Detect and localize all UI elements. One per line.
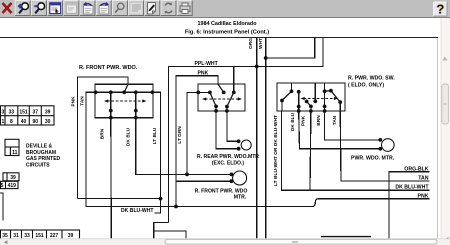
left page-edge clipped table borders <box>0 106 2 125</box>
wire PNK feed to SW1 lever <box>78 77 129 199</box>
junction PNK / LT BLU <box>78 198 161 200</box>
bottom scrollbar left arrow <box>4 240 7 244</box>
SW3 contact pair x298.7 <box>298 92 300 111</box>
wire PPL-WHT riser and branch <box>169 38 324 223</box>
clipped component edge bottom <box>321 236 371 238</box>
connector 5/419 box <box>0 181 18 189</box>
SW2 moving contact D1 <box>210 92 216 106</box>
switch SW1 R. FRONT PWR. WDO. box <box>95 84 153 117</box>
connector 11 box <box>5 139 19 156</box>
stub below staircase <box>153 231 155 239</box>
wire PNK riser to SW2 <box>176 76 218 207</box>
wire LT GRN feed to SW2 <box>187 92 210 174</box>
motor M1 R. REAR PWR. WDO. MTR. <box>237 139 251 150</box>
SW2 lever 1 <box>218 84 224 92</box>
wire LT BLU-WHT OR DK BLU-WHT from SW3 <box>282 101 430 191</box>
connector pin table bottom-left (35 31 33 151 227 39) <box>0 230 80 239</box>
wire TAN long run with jog to PNK lead <box>86 199 430 207</box>
SW1 contact column 2 <box>135 92 137 117</box>
junction PNK riser on TAN run <box>174 205 178 209</box>
wire PNK tee to R. FRONT motor lower <box>176 180 231 182</box>
toolbar zoom-out button <box>31 1 46 16</box>
toolbar notes button <box>145 1 160 16</box>
wire LT BLU from SW1 common <box>153 92 161 213</box>
wire DK BLU from SW1 to R. FRONT motor <box>136 118 232 175</box>
SW2 common dot A <box>208 91 212 95</box>
toolbar select-document button <box>48 1 63 16</box>
wire BRN from SW1 to bottom <box>110 118 113 239</box>
wire WHT riser <box>265 38 267 239</box>
wire TAN from SW3 to right <box>340 111 429 181</box>
toolbar previous-view button <box>80 1 95 16</box>
SW1 travel arrow (dashed) <box>107 100 144 102</box>
wire TAN feed to SW1 <box>86 92 95 207</box>
wire WHT branch <box>266 38 315 59</box>
SW3 feed peg from ORG <box>324 83 326 91</box>
toolbar text-list button (grayed) <box>129 1 144 16</box>
toolbar close (red X) button <box>3 3 12 13</box>
SW2 feed 2 contact <box>233 84 235 92</box>
SW1 contact column 1 <box>110 92 112 117</box>
note DEVILLE & BROUGHAM GAS PRINTED CIRCUITS <box>26 144 61 169</box>
SW3 contact pair x324.6 <box>324 91 326 111</box>
right scrollbar track <box>441 18 450 240</box>
switch SW3 box <box>277 83 345 111</box>
toolbar help button (yellow question mark) <box>434 2 448 17</box>
SW2 moving contact D2 <box>227 92 234 106</box>
SW1 contact dots on common <box>94 90 98 94</box>
motor M3 PWR. WDO. MTR. <box>378 138 394 151</box>
connector 39 box <box>3 173 19 181</box>
toolbar copy-pages button (grayed) <box>64 1 79 16</box>
connector pin table top-left (33 151 37 39 / 8 40 90 30) <box>0 106 54 125</box>
wire BRN from SW3 to PWR WDO motor upper <box>325 111 381 140</box>
motor M2 R. FRONT PWR. WDO. MTR. <box>185 171 247 185</box>
wire PPL-WHT drop to SW2 <box>233 66 235 84</box>
toolbar print button <box>177 1 192 16</box>
toolbar refresh button <box>161 1 176 16</box>
toolbar next-view button <box>96 1 111 16</box>
wire PNK from SW3 down <box>309 111 312 190</box>
switch SW2 box <box>198 84 245 111</box>
right scrollbar up arrow <box>442 57 447 61</box>
bottom-right scrollbar corner <box>446 236 448 238</box>
bottom scrollbar track <box>0 239 450 245</box>
title rule <box>0 37 438 39</box>
toolbar zoom-in button <box>15 1 30 16</box>
wire ORG-BLK <box>389 172 430 239</box>
SW1 lever <box>124 84 128 92</box>
wire DK BLU from SW3 to PWR WDO motor lower <box>299 111 381 149</box>
SW3 travel arrow (dashed) <box>304 98 336 100</box>
wire SW2 to R. REAR motor upper <box>227 111 239 141</box>
wire ORG riser <box>256 38 258 239</box>
SW2 travel arrow (dashed) <box>205 98 239 100</box>
SW1 common bus <box>95 91 153 93</box>
wire SW2 to R. REAR motor lower <box>216 111 238 149</box>
SW3 right contact drop <box>339 102 341 111</box>
SW3 lever left <box>282 91 292 100</box>
staircase wire to bottom connector <box>154 223 186 239</box>
SW3 contact mid with lever <box>305 100 309 104</box>
SW3 peg 1 with lever to left <box>291 83 293 91</box>
bottom scrollbar thumb <box>165 239 437 244</box>
toolbar background <box>0 0 450 17</box>
SW2 left edge contact dot <box>196 91 200 95</box>
SW3 lever right <box>325 91 341 102</box>
SW3 feed peg from WHT <box>314 83 316 101</box>
toolbar search button (grayed) <box>112 1 127 16</box>
content/scrollbar separator <box>437 38 439 239</box>
right scrollbar thumb <box>442 84 449 124</box>
wire stub at left page edge <box>0 193 3 221</box>
